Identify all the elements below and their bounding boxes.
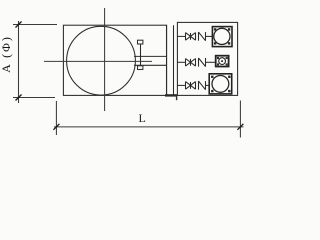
- blower B1 flange: [212, 27, 232, 47]
- dimension A extension line top: [13, 24, 57, 26]
- dimension A extension line bottom: [13, 97, 55, 99]
- connector pipe 2: [206, 61, 216, 63]
- connector pipe 3: [206, 84, 210, 86]
- flexible joint N3: [199, 81, 206, 90]
- gauge B2 circle: [219, 58, 226, 65]
- outlet pipe top line: [134, 55, 167, 57]
- outlet pipe bottom line: [134, 64, 167, 66]
- dimension A line: [18, 21, 20, 103]
- blower B1 circle: [214, 28, 230, 44]
- nozzle stem bottom cap: [138, 66, 143, 70]
- dimension L tick right: [237, 124, 243, 130]
- dimension L extension line left: [55, 101, 57, 135]
- blower B1 bolts: [214, 28, 230, 44]
- tank circle: [67, 26, 136, 95]
- valve V3: [186, 82, 196, 90]
- svg-text:A (Φ): A (Φ): [0, 35, 13, 73]
- vertical centerline: [104, 8, 106, 111]
- valve V1: [186, 33, 196, 41]
- horizontal centerline: [44, 60, 152, 62]
- panel left leg stub: [176, 95, 178, 100]
- flexible joint N1: [199, 32, 206, 41]
- header bottom flange: [165, 94, 177, 96]
- blower B3 flange: [209, 74, 232, 94]
- branch pipe 3: [177, 84, 185, 86]
- connector pipe 1: [206, 35, 213, 37]
- blower B3 circle: [212, 76, 229, 93]
- gauge B2 bolts: [217, 57, 228, 65]
- gauge B2 flange: [216, 56, 229, 67]
- panel outline: [177, 22, 237, 95]
- dimension A tick bottom: [16, 95, 22, 101]
- blower B3 bolts: [211, 76, 230, 93]
- valve V2: [186, 59, 196, 67]
- nozzle stem: [140, 44, 142, 66]
- svg-text:L: L: [139, 111, 146, 125]
- dimension L line: [54, 126, 244, 128]
- header pipe left line: [166, 25, 168, 95]
- header pipe right line: [173, 25, 175, 95]
- flexible joint N2: [199, 58, 206, 67]
- gauge B2 center dot: [221, 60, 223, 62]
- base line segment: [167, 94, 178, 96]
- branch pipe 2: [177, 61, 185, 63]
- dimension L extension line right: [239, 101, 241, 138]
- branch pipe 1: [177, 35, 185, 37]
- nozzle stem top cap: [138, 40, 143, 44]
- dimension A tick top: [16, 22, 22, 28]
- dimension L tick left: [53, 124, 59, 130]
- tank outline: [63, 25, 166, 95]
